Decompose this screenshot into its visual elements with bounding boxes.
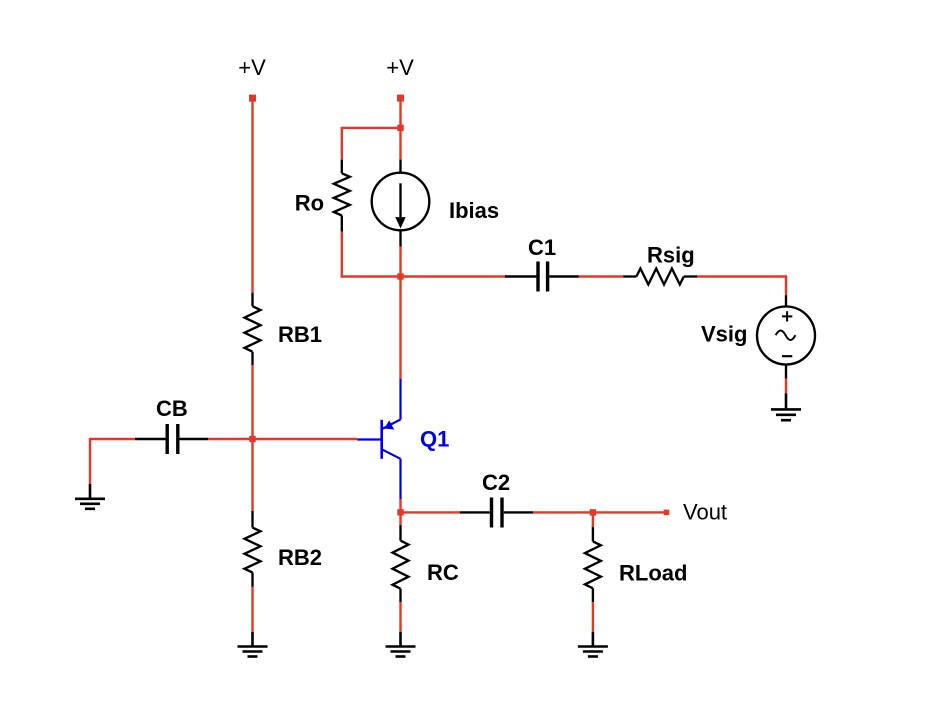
resistor Rsig xyxy=(623,269,697,285)
wire CB input corner xyxy=(90,438,135,440)
wire CB input down to ground xyxy=(89,438,91,484)
resistor RB1 xyxy=(245,293,261,365)
wire Ro branch bottom to center node xyxy=(341,275,401,277)
capacitor C1 xyxy=(505,262,579,292)
resistor RB2 xyxy=(245,511,261,587)
wire RLoad to ground xyxy=(592,602,594,632)
current source Ibias xyxy=(372,160,430,247)
junction emitter node xyxy=(397,273,403,279)
wire load node to Vout terminal xyxy=(593,511,667,513)
wire C2 to load node xyxy=(533,511,593,513)
svg-text:Vsig: Vsig xyxy=(701,321,747,346)
wire base node down to RB2 xyxy=(251,439,253,511)
wire Ro branch down xyxy=(341,127,343,160)
wire CB to base node xyxy=(208,438,253,440)
svg-text:CB: CB xyxy=(156,396,188,421)
wire Ro bottom down xyxy=(341,232,343,278)
ground (under Vsig) xyxy=(771,393,801,420)
svg-text:+V: +V xyxy=(386,55,414,80)
resistor RLoad xyxy=(585,527,601,602)
wire Ibias to emitter node xyxy=(399,247,401,277)
node +V center terminal square xyxy=(397,95,404,102)
ground (under RC) xyxy=(386,632,416,657)
svg-text:RB2: RB2 xyxy=(278,545,322,570)
junction base node xyxy=(249,436,255,442)
svg-text:Ro: Ro xyxy=(295,191,324,216)
svg-text:Q1: Q1 xyxy=(420,427,449,452)
svg-text:+V: +V xyxy=(238,55,266,80)
svg-text:C1: C1 xyxy=(528,235,556,260)
svg-text:Ibias: Ibias xyxy=(449,198,499,223)
wire junction to Ro branch (horizontal) xyxy=(342,127,401,129)
capacitor C2 xyxy=(460,498,533,528)
wire emitter node to C1 xyxy=(401,275,506,277)
node +V left terminal square xyxy=(249,95,256,102)
junction Ro tap node xyxy=(397,125,403,131)
ground (under RB2) xyxy=(238,632,268,657)
svg-text:RC: RC xyxy=(427,560,459,585)
junction load node xyxy=(590,509,596,515)
wire Vsig top xyxy=(785,277,787,296)
wire left rail +V down to RB1 xyxy=(251,98,253,293)
transistor Q1 xyxy=(357,379,400,499)
svg-text:C2: C2 xyxy=(482,470,510,495)
capacitor CB xyxy=(135,424,208,454)
voltage source Vsig xyxy=(757,295,815,379)
wire RC to ground xyxy=(399,602,401,632)
junction collector output node xyxy=(397,509,403,515)
wire transistor collector down to output node xyxy=(399,499,401,525)
wire emitter node down to transistor xyxy=(399,277,401,380)
wire C1 to Rsig xyxy=(579,275,623,277)
ground (under CB input) xyxy=(75,484,105,509)
wire base node to transistor base xyxy=(253,438,358,440)
svg-text:RLoad: RLoad xyxy=(619,561,687,586)
terminal Vout xyxy=(664,510,670,516)
wire output node to C2 xyxy=(401,511,461,513)
wire RB2 to ground xyxy=(251,587,253,632)
svg-text:RB1: RB1 xyxy=(278,322,322,347)
wire load node down to RLoad xyxy=(592,512,594,527)
svg-text:Rsig: Rsig xyxy=(647,243,695,268)
svg-text:Vout: Vout xyxy=(683,500,727,525)
ground (under RLoad) xyxy=(578,632,608,657)
wire center rail +V down to Ibias xyxy=(399,98,401,160)
wire Vsig to ground xyxy=(785,379,787,394)
wire RB1 to base node xyxy=(251,365,253,439)
wire Rsig to Vsig corner xyxy=(697,275,787,277)
resistor Ro xyxy=(334,160,350,232)
resistor RC xyxy=(393,525,409,602)
